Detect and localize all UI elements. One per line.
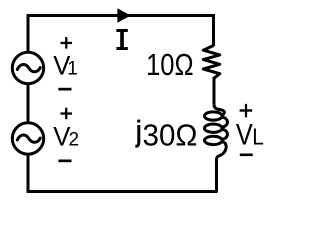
label j30ohm : j drawn manually <box>137 120 140 123</box>
svg-text:2: 2 <box>69 130 80 151</box>
svg-text:1: 1 <box>67 58 78 79</box>
source V1 sine <box>17 65 40 72</box>
minus V1 <box>58 88 71 91</box>
minus VL <box>240 154 253 157</box>
svg-text:10Ω: 10Ω <box>146 47 194 82</box>
minus V2 <box>58 160 71 163</box>
inductor L1 j30ohm coil <box>204 104 227 159</box>
wire left vertical above V1 <box>27 14 30 53</box>
wire bottom horizontal <box>28 190 218 193</box>
plus V2 <box>61 108 73 120</box>
svg-text:V: V <box>236 118 253 151</box>
source V1 circle <box>12 52 43 83</box>
wire left vertical below V2 <box>27 154 30 193</box>
plus V1 <box>61 37 73 49</box>
svg-text:L: L <box>252 123 264 149</box>
plus VL <box>240 104 253 117</box>
wire resistor to inductor <box>213 78 216 105</box>
resistor R1 10ohm zigzag <box>203 46 220 79</box>
wire top horizontal <box>28 14 214 17</box>
source V2 sine <box>17 135 40 142</box>
svg-text:30Ω: 30Ω <box>143 117 198 152</box>
wire between V1 and V2 <box>27 84 30 123</box>
wire right vertical corner to resistor top <box>212 14 215 46</box>
wire inductor to bottom corner <box>215 158 218 192</box>
label I (serif) <box>116 29 127 50</box>
current arrow head <box>117 8 130 23</box>
source V2 circle <box>12 123 43 154</box>
